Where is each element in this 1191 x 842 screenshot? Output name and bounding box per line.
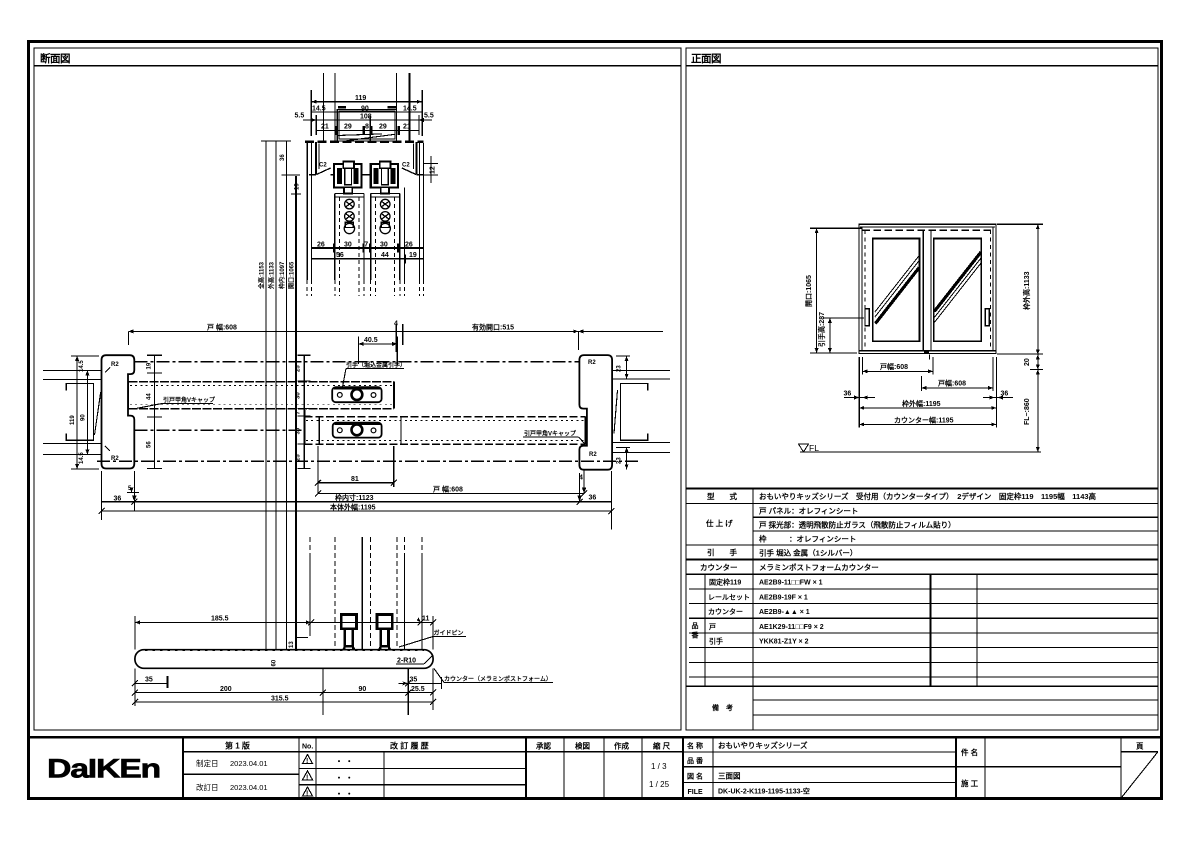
right wall lines xyxy=(612,369,670,371)
front handle plate xyxy=(333,423,382,438)
svg-text:315.5: 315.5 xyxy=(271,695,289,702)
project cols xyxy=(955,737,957,798)
small arrows on dims xyxy=(815,224,1040,452)
svg-text:本体外幅:1195: 本体外幅:1195 xyxy=(329,502,376,511)
right panel header line xyxy=(686,65,1158,67)
svg-text:施 工: 施 工 xyxy=(961,778,979,788)
svg-text:30: 30 xyxy=(296,392,302,399)
top rail hidden line xyxy=(863,229,993,231)
page diagonal xyxy=(1122,752,1158,797)
rear door band xyxy=(128,382,394,409)
svg-text:26: 26 xyxy=(405,241,413,248)
svg-text:35: 35 xyxy=(410,677,418,684)
dim 枠内寸1123 xyxy=(101,501,611,503)
svg-text:枠外高:1133: 枠外高:1133 xyxy=(1022,271,1031,310)
60 rotated label xyxy=(272,659,278,666)
svg-text:備 考: 備 考 xyxy=(712,703,733,712)
warning triangles xyxy=(303,755,313,797)
roller right xyxy=(371,162,398,194)
wall stubs below head xyxy=(306,143,308,280)
svg-text:図 名: 図 名 xyxy=(687,772,703,781)
dim 枠外幅:1195 xyxy=(859,407,996,409)
svg-text:23: 23 xyxy=(617,365,623,372)
svg-text:頁: 頁 xyxy=(1136,742,1144,751)
window outer frame xyxy=(859,224,996,353)
svg-text:戸 幅:608: 戸 幅:608 xyxy=(207,323,237,332)
svg-text:有効開口:515: 有効開口:515 xyxy=(472,323,514,332)
meeting stiles xyxy=(922,230,924,350)
dim 26 30 7 30 26 xyxy=(311,247,423,249)
chamfer slants xyxy=(317,168,331,175)
right wall C-stud xyxy=(621,384,648,441)
dim 本体外幅1195 xyxy=(102,510,612,512)
svg-text:型 式: 型 式 xyxy=(707,491,737,501)
svg-text:36: 36 xyxy=(280,154,286,161)
svg-text:AE1K29-11□□F9 × 2: AE1K29-11□□F9 × 2 xyxy=(759,624,824,631)
right dims 23/23 xyxy=(616,356,630,469)
svg-text:・ ・: ・ ・ xyxy=(335,790,353,799)
svg-text:200: 200 xyxy=(220,686,232,693)
svg-text:36: 36 xyxy=(844,391,852,398)
guide pin right xyxy=(377,615,392,651)
bottom rail lines xyxy=(859,350,996,352)
No. column xyxy=(315,737,317,798)
front door band xyxy=(305,410,586,444)
svg-text:枠内:1097: 枠内:1097 xyxy=(278,261,286,289)
bottom dim 戸幅608 xyxy=(318,493,584,495)
hinban narrow col xyxy=(704,574,706,686)
dim 185.5 / 11 xyxy=(135,621,433,623)
svg-text:56: 56 xyxy=(336,252,344,259)
svg-text:正面図: 正面図 xyxy=(691,53,721,65)
svg-text:戸: 戸 xyxy=(709,623,716,631)
rev history rows xyxy=(299,751,526,753)
svg-text:作成: 作成 xyxy=(614,741,629,751)
left overall dim lines xyxy=(265,141,267,668)
counter label xyxy=(444,675,552,683)
dim 戸幅:608 left xyxy=(863,357,934,375)
svg-text:引手 堀込 金属（1シルバー）: 引手 堀込 金属（1シルバー） xyxy=(759,548,857,558)
label 引戸甲角Vキャップ left xyxy=(163,396,216,404)
svg-text:R2: R2 xyxy=(588,360,596,366)
svg-text:おもいやりキッズシリーズ 受付用（カウンタータイプ） 2デザ: おもいやりキッズシリーズ 受付用（カウンタータイプ） 2デザイン 固定枠119 … xyxy=(759,491,1097,501)
DAIKEN logo xyxy=(47,754,160,784)
svg-text:2023.04.01: 2023.04.01 xyxy=(230,783,268,792)
svg-text:枠 ：オレフィンシート: 枠 ：オレフィンシート xyxy=(758,534,856,544)
right jamb profile xyxy=(579,355,612,470)
jamb chamfer R2 labels xyxy=(111,362,119,462)
roller left xyxy=(334,162,361,194)
left sash glazing xyxy=(873,238,920,341)
svg-text:固定枠119: 固定枠119 xyxy=(709,578,741,587)
svg-text:!: ! xyxy=(306,774,308,781)
center tick below window xyxy=(929,355,931,360)
header 第1版 xyxy=(183,751,299,753)
svg-text:44: 44 xyxy=(381,252,389,259)
svg-text:・ ・: ・ ・ xyxy=(335,757,353,766)
svg-text:引戸甲角Vキャップ: 引戸甲角Vキャップ xyxy=(163,396,216,404)
svg-text:119: 119 xyxy=(70,415,76,425)
door lines lower xyxy=(334,537,336,650)
door left section xyxy=(335,194,364,297)
svg-text:カウンター（メラミンポストフォーム）: カウンター（メラミンポストフォーム） xyxy=(444,675,552,683)
svg-text:29: 29 xyxy=(379,124,387,131)
door right section xyxy=(371,194,400,297)
guide pin left xyxy=(341,615,356,651)
svg-text:・ ・: ・ ・ xyxy=(335,774,353,783)
labels xyxy=(700,491,738,572)
bottom dims xyxy=(135,682,168,684)
glass diagonal left pane xyxy=(875,256,919,313)
svg-text:戸 幅:608: 戸 幅:608 xyxy=(433,485,463,494)
svg-text:戸幅:608: 戸幅:608 xyxy=(880,362,908,371)
tick marks bottom dims xyxy=(99,480,615,514)
dim 12 right of head xyxy=(424,163,438,165)
left panel box xyxy=(34,48,681,730)
svg-text:19: 19 xyxy=(147,362,153,369)
rev dots sub divider xyxy=(383,752,385,798)
chain line front track left xyxy=(135,429,305,431)
svg-text:29: 29 xyxy=(344,124,352,131)
dim 56 44 19 xyxy=(311,258,423,260)
svg-text:26: 26 xyxy=(317,241,325,248)
svg-text:番: 番 xyxy=(691,631,700,640)
svg-text:90: 90 xyxy=(359,686,367,693)
svg-text:開口:1065: 開口:1065 xyxy=(804,275,813,307)
svg-text:戸幅:608: 戸幅:608 xyxy=(938,379,966,388)
left wall C-stud xyxy=(66,384,93,441)
top dim line 戸幅608 有効開口515 xyxy=(128,330,663,332)
svg-text:!: ! xyxy=(306,791,308,798)
svg-text:!: ! xyxy=(306,758,308,765)
svg-text:7: 7 xyxy=(364,241,368,248)
svg-text:44: 44 xyxy=(147,393,153,400)
svg-text:DK-UK-2-K119-1195-1133-空: DK-UK-2-K119-1195-1133-空 xyxy=(718,787,810,796)
left jamb profile xyxy=(102,355,135,468)
head jamb box xyxy=(315,142,317,175)
svg-text:開口:1065: 開口:1065 xyxy=(288,261,296,289)
svg-text:23: 23 xyxy=(617,457,623,464)
svg-text:戸 採光部：透明飛散防止ガラス（飛散防止フィルム貼り）: 戸 採光部：透明飛散防止ガラス（飛散防止フィルム貼り） xyxy=(759,520,956,530)
svg-text:60: 60 xyxy=(272,659,278,666)
svg-text:5.5: 5.5 xyxy=(295,113,305,120)
svg-text:レールセット: レールセット xyxy=(708,594,750,602)
dim 21 29 8 29 21 xyxy=(316,129,419,131)
handle left xyxy=(865,309,869,326)
svg-text:13: 13 xyxy=(289,641,295,648)
svg-text:12: 12 xyxy=(430,166,437,174)
header 改訂履歴 xyxy=(390,741,429,751)
chain line rear track xyxy=(135,361,580,363)
svg-text:第 1 版: 第 1 版 xyxy=(225,741,250,751)
approve cols xyxy=(525,737,527,798)
wall verticals above head xyxy=(323,73,325,142)
svg-text:引手: 引手 xyxy=(709,637,723,646)
svg-text:枠外幅:1195: 枠外幅:1195 xyxy=(902,399,941,408)
svg-text:検図: 検図 xyxy=(575,741,590,751)
svg-text:14.5: 14.5 xyxy=(79,452,85,464)
dim 36 left right xyxy=(844,357,1013,428)
svg-text:カウンター: カウンター xyxy=(700,562,738,572)
dim 119 xyxy=(310,90,312,136)
right sash glazing xyxy=(934,238,982,341)
2-R10 label xyxy=(397,658,416,665)
svg-text:AE2B9-11□□FW × 1: AE2B9-11□□FW × 1 xyxy=(759,580,823,587)
svg-text:4: 4 xyxy=(394,321,398,328)
svg-text:119: 119 xyxy=(355,95,366,102)
svg-text:外高:1133: 外高:1133 xyxy=(268,261,276,290)
title block frame xyxy=(29,737,1162,798)
svg-text:改訂日: 改訂日 xyxy=(196,782,219,792)
right break diagonal xyxy=(614,390,618,434)
left wall lines xyxy=(43,369,102,371)
right empty columns xyxy=(930,574,932,686)
svg-text:縮 尺: 縮 尺 xyxy=(653,741,671,751)
lock keeper center bottom xyxy=(924,350,929,353)
screws left door xyxy=(344,199,354,233)
dim col 19/44/56 xyxy=(147,355,162,468)
dim 枠外高:1133 xyxy=(997,224,1043,452)
left dims 119/90/14.5 xyxy=(71,356,99,469)
svg-text:DaIKEn: DaIKEn xyxy=(47,754,160,784)
svg-text:引手高:287: 引手高:287 xyxy=(817,312,826,347)
svg-text:25.5: 25.5 xyxy=(411,686,425,693)
name block xyxy=(682,737,684,798)
daiken cell divider xyxy=(182,737,184,798)
svg-text:56: 56 xyxy=(147,441,153,448)
glass diagonal right pane xyxy=(934,252,981,312)
row lines xyxy=(686,502,1158,504)
rear handle plate xyxy=(332,387,381,402)
svg-text:21: 21 xyxy=(321,124,329,131)
dim 開口:1065 xyxy=(810,228,862,353)
svg-text:FL: FL xyxy=(809,443,819,453)
svg-text:35: 35 xyxy=(145,677,153,684)
svg-text:19: 19 xyxy=(409,252,417,259)
dim 戸幅:608 right xyxy=(921,357,993,391)
mini dim 5 at jamb notch xyxy=(127,492,139,494)
svg-text:40.5: 40.5 xyxy=(364,337,378,344)
svg-text:20: 20 xyxy=(1024,358,1031,366)
svg-text:制定日: 制定日 xyxy=(196,758,219,768)
wall verticals lower xyxy=(310,537,422,556)
svg-text:R2: R2 xyxy=(589,452,597,458)
svg-text:25: 25 xyxy=(296,365,302,372)
svg-text:21: 21 xyxy=(403,124,411,131)
dim 5.5 108 5.5 xyxy=(315,115,317,135)
svg-text:全高:1153: 全高:1153 xyxy=(258,261,266,290)
frame inner offset lines xyxy=(861,227,863,351)
svg-text:断面図: 断面図 xyxy=(40,52,70,65)
svg-text:おもいやりキッズシリーズ: おもいやりキッズシリーズ xyxy=(718,740,808,750)
svg-text:90: 90 xyxy=(80,414,86,421)
svg-text:36: 36 xyxy=(589,495,597,502)
FL line xyxy=(800,451,1041,453)
svg-text:メラミンポストフォームカウンター: メラミンポストフォームカウンター xyxy=(759,562,879,572)
left panel header line xyxy=(34,65,681,67)
svg-text:1 / 3: 1 / 3 xyxy=(651,762,667,771)
chamfer labels C2 xyxy=(319,163,410,169)
scale values xyxy=(649,762,670,789)
svg-text:引 手: 引 手 xyxy=(707,547,737,557)
rev col divider xyxy=(298,737,300,798)
label 引戸甲角Vキャップ right xyxy=(524,430,577,438)
svg-text:ガイドピン: ガイドピン xyxy=(434,629,464,637)
svg-text:FILE: FILE xyxy=(688,789,703,796)
counter slab xyxy=(135,650,433,669)
svg-text:C2: C2 xyxy=(402,163,410,169)
dim 13 xyxy=(295,636,308,638)
svg-text:承認: 承認 xyxy=(536,741,551,751)
svg-text:81: 81 xyxy=(351,476,359,483)
svg-text:三面図: 三面図 xyxy=(718,772,741,781)
svg-text:2023.04.01: 2023.04.01 xyxy=(230,759,268,768)
svg-text:30: 30 xyxy=(344,241,352,248)
bottom dim 81 xyxy=(318,482,394,484)
svg-text:36: 36 xyxy=(114,496,122,503)
head top chain line xyxy=(305,141,424,143)
dim カウンター幅:1195 xyxy=(859,423,996,425)
svg-text:30: 30 xyxy=(380,241,388,248)
label column divider xyxy=(752,488,754,730)
dim 40.5 xyxy=(359,343,398,345)
svg-text:AE2B9-19F × 1: AE2B9-19F × 1 xyxy=(759,595,808,602)
svg-text:引戸甲角Vキャップ: 引戸甲角Vキャップ xyxy=(524,430,577,438)
svg-text:25: 25 xyxy=(296,454,302,461)
svg-text:185.5: 185.5 xyxy=(211,616,229,623)
frame sash gap dashed xyxy=(864,230,866,350)
svg-text:品: 品 xyxy=(692,621,699,630)
head inner wall lines xyxy=(318,144,320,170)
svg-text:C2: C2 xyxy=(319,163,327,169)
dim 14.5 90 14.5 xyxy=(311,111,422,113)
svg-text:14.5: 14.5 xyxy=(312,105,326,112)
svg-text:YKK81-Z1Y × 2: YKK81-Z1Y × 2 xyxy=(759,639,809,646)
svg-text:4: 4 xyxy=(579,475,583,482)
svg-text:件 名: 件 名 xyxy=(961,747,978,757)
svg-text:枠内寸:1123: 枠内寸:1123 xyxy=(335,493,374,502)
screws right door xyxy=(380,199,390,233)
svg-text:改 訂 履 歴: 改 訂 履 歴 xyxy=(390,741,429,751)
svg-text:5.5: 5.5 xyxy=(424,113,434,120)
svg-text:11: 11 xyxy=(422,616,430,623)
svg-text:カウンター幅:1195: カウンター幅:1195 xyxy=(894,415,954,424)
svg-text:1 / 25: 1 / 25 xyxy=(649,780,670,789)
svg-text:FL−:860: FL−:860 xyxy=(1024,398,1031,425)
svg-text:戸 パネル：オレフィンシート: 戸 パネル：オレフィンシート xyxy=(759,506,858,516)
spec table top line xyxy=(686,487,1158,489)
guide pin label xyxy=(434,629,464,637)
dim col 25/30/7/30/25 xyxy=(298,355,311,468)
FL marker xyxy=(799,444,809,452)
svg-text:No.: No. xyxy=(302,744,313,751)
handle right xyxy=(985,309,989,326)
svg-text:14.5: 14.5 xyxy=(79,360,85,372)
svg-text:AE2B9-▲▲ × 1: AE2B9-▲▲ × 1 xyxy=(759,609,810,616)
chain line counter edge xyxy=(97,460,638,462)
label 引手 leader top xyxy=(346,361,406,369)
rail extrusion xyxy=(337,106,396,141)
contents xyxy=(758,491,1097,572)
page cell xyxy=(1120,737,1122,798)
svg-text:8: 8 xyxy=(365,124,369,131)
right panel box xyxy=(686,48,1158,730)
svg-text:仕 上 げ: 仕 上 げ xyxy=(705,518,733,528)
row 制定日 xyxy=(183,773,299,775)
svg-text:19: 19 xyxy=(295,183,301,190)
svg-text:品 番: 品 番 xyxy=(687,756,704,765)
svg-text:R2: R2 xyxy=(111,362,119,368)
svg-text:14.5: 14.5 xyxy=(403,105,417,112)
svg-text:カウンター: カウンター xyxy=(708,607,743,616)
svg-text:108: 108 xyxy=(360,114,372,121)
dim 引手高:287 xyxy=(823,318,864,353)
dim 6 right xyxy=(579,473,581,502)
left break diagonal xyxy=(95,392,101,435)
svg-text:名 称: 名 称 xyxy=(687,741,703,750)
